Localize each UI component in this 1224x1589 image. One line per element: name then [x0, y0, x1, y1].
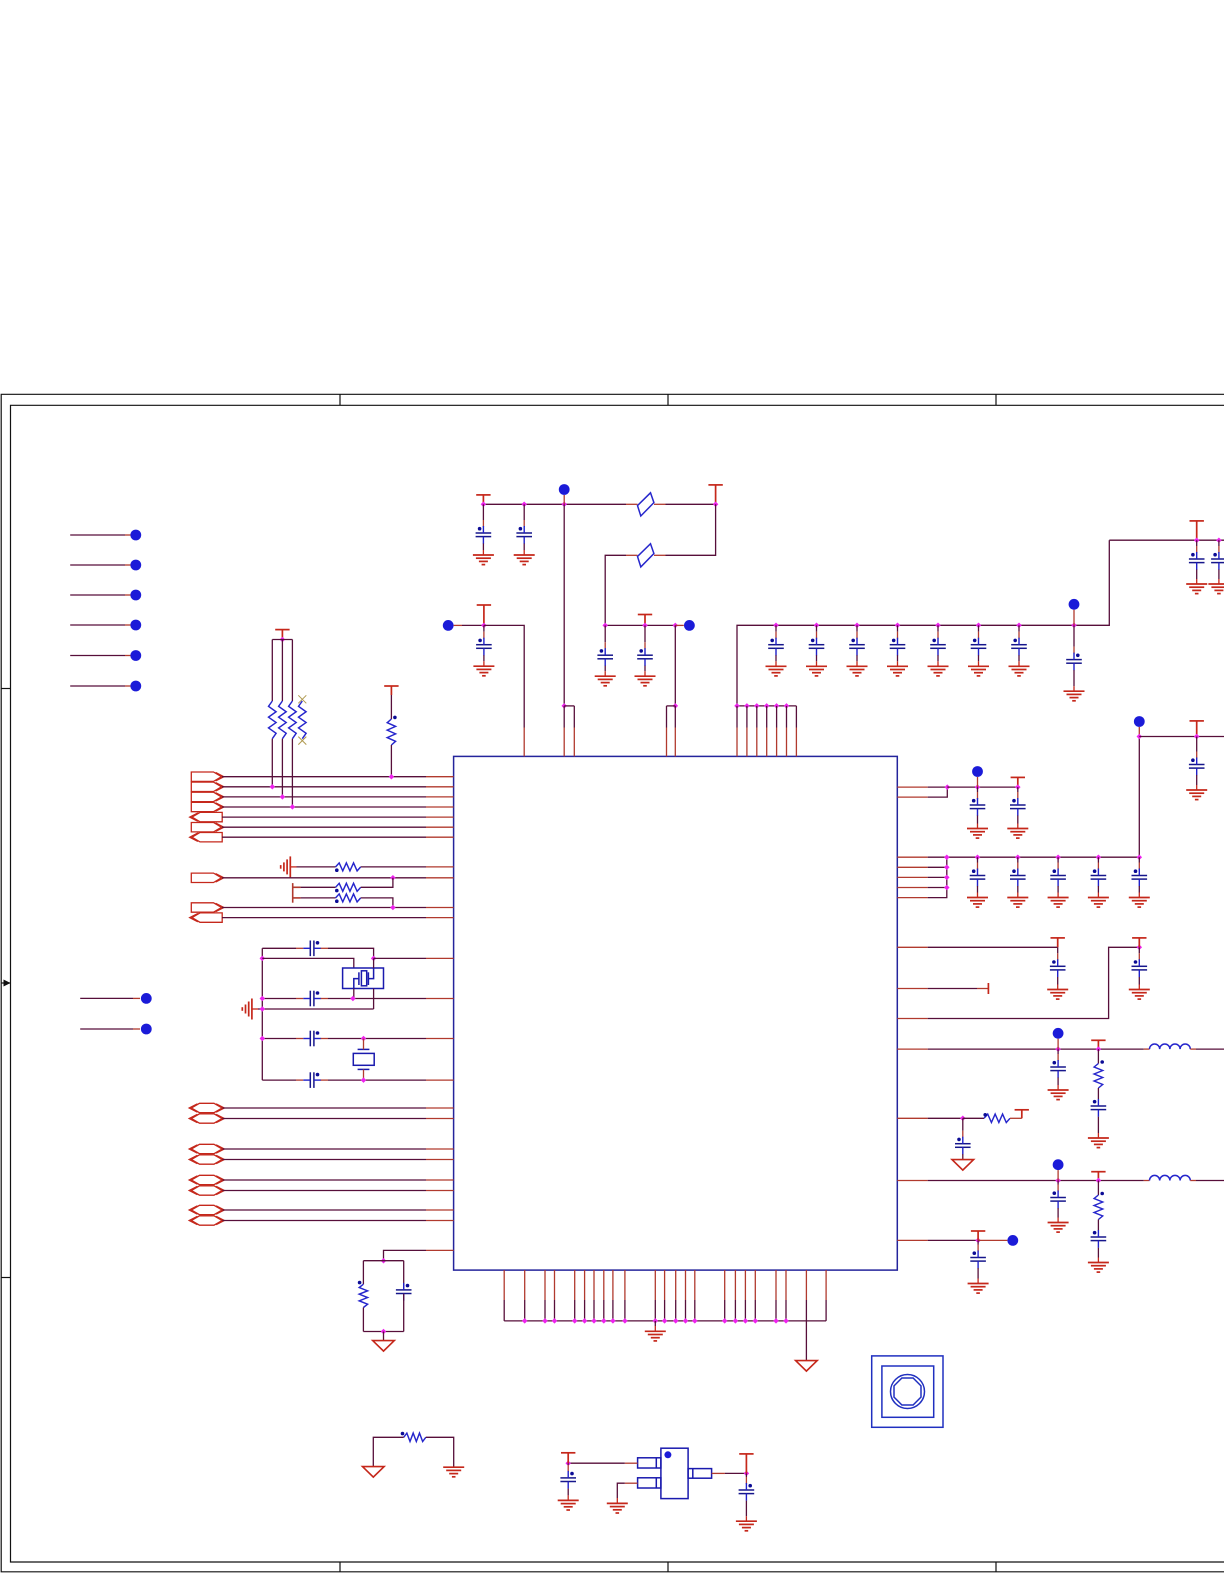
wire: [222, 786, 426, 788]
resistor R3: [289, 701, 297, 739]
wire: [574, 1270, 576, 1300]
wire: [947, 856, 1140, 858]
port PB6: [192, 1186, 223, 1195]
wire: [1010, 1117, 1022, 1119]
ground: [1047, 990, 1068, 1000]
node NC4: [130, 620, 141, 631]
wire: [484, 625, 524, 727]
junction: [1096, 854, 1102, 860]
wire: [776, 706, 778, 728]
wire: [1138, 737, 1140, 858]
wire: [222, 1159, 426, 1161]
wire: [426, 1437, 454, 1467]
junction: [722, 1318, 728, 1324]
wire: [1139, 736, 1224, 738]
capacitor C4: [303, 1072, 321, 1088]
capacitor C14: [890, 638, 906, 656]
port P5: [192, 812, 222, 821]
wire: [362, 1261, 364, 1285]
junction: [713, 502, 719, 508]
junction: [944, 865, 950, 871]
node VDD: [559, 484, 570, 495]
ground: [1129, 898, 1150, 908]
wire: [271, 739, 273, 787]
power VOUT: [739, 1454, 753, 1474]
capacitor C6: [476, 526, 492, 544]
junction: [260, 956, 266, 962]
wire: [1057, 1039, 1059, 1049]
junction: [290, 804, 296, 810]
resistor R12: [1094, 1195, 1103, 1220]
wire: [262, 958, 354, 968]
wire: [664, 1270, 666, 1300]
inductor L1: [1150, 1044, 1191, 1049]
capacitor C38: [739, 1483, 755, 1501]
wire: [373, 958, 375, 968]
resistor R5: [387, 719, 395, 745]
ferrite bead FB1: [638, 493, 654, 516]
junction: [784, 703, 790, 709]
wire: [963, 1117, 984, 1119]
wire: [897, 897, 927, 899]
junction: [280, 637, 286, 643]
capacitor C30: [1132, 959, 1148, 977]
node NC5: [130, 650, 141, 661]
wire: [897, 1048, 927, 1050]
ground: [558, 1500, 579, 1510]
junction: [774, 703, 780, 709]
wire: [654, 554, 666, 556]
resistor R9: [359, 1284, 367, 1307]
node NC1: [130, 530, 141, 541]
wire: [373, 989, 375, 1010]
junction: [280, 794, 286, 800]
capacitor C37: [560, 1471, 576, 1489]
capacitor C2: [303, 991, 321, 1007]
ground: [968, 666, 989, 676]
wire: [666, 503, 716, 505]
junction: [361, 1077, 367, 1083]
capacitor C12: [809, 638, 825, 656]
wire: [897, 1018, 927, 1020]
junction: [521, 502, 527, 508]
wire: [1097, 1049, 1099, 1063]
junction: [522, 1318, 528, 1324]
wire: [361, 898, 393, 908]
junction: [1071, 623, 1077, 629]
wire: [262, 1079, 296, 1081]
ground: [595, 676, 616, 686]
wire: [563, 495, 565, 504]
ground: [1208, 584, 1224, 594]
power AVDD33: [1091, 1040, 1105, 1049]
mounting hole M1: [872, 1356, 943, 1427]
wire: [222, 877, 426, 879]
capacitor C22: [1010, 798, 1026, 816]
connector J1: [293, 883, 301, 903]
ground: [1129, 990, 1150, 1000]
node VDD18: [1134, 716, 1145, 727]
ground: [1048, 1223, 1069, 1233]
wire: [737, 540, 1109, 706]
wire: [252, 1008, 258, 1010]
junction: [390, 875, 396, 881]
junction: [854, 623, 860, 629]
junction: [1055, 854, 1061, 860]
ferrite bead FB2: [638, 544, 654, 567]
wire: [786, 706, 788, 728]
junction: [754, 703, 760, 709]
capacitor C16: [971, 638, 987, 656]
power VBAT: [971, 1231, 985, 1240]
wire: [674, 706, 676, 728]
node VDD: [972, 766, 983, 777]
port P7: [192, 833, 222, 842]
wire: [328, 998, 426, 1000]
wire: [503, 1270, 505, 1300]
junction: [744, 703, 750, 709]
capacitor C8: [476, 638, 492, 656]
wire: [222, 1179, 426, 1181]
wire: [272, 639, 292, 641]
resistor R7: [336, 883, 361, 891]
junction: [389, 774, 395, 780]
junction: [260, 1006, 266, 1012]
capacitor C36: [970, 1251, 986, 1269]
wire: [363, 1331, 403, 1333]
wire: [1190, 1048, 1196, 1050]
junction: [773, 1318, 779, 1324]
wire: [504, 1320, 826, 1322]
junction: [744, 1471, 750, 1477]
ground: [1088, 1138, 1109, 1148]
wire: [694, 1270, 696, 1300]
ground: [443, 1467, 464, 1477]
ground (triangle): [373, 1341, 395, 1352]
wire: [281, 640, 283, 702]
node NC2: [130, 560, 141, 571]
junction: [622, 1318, 628, 1324]
port PB7: [192, 1205, 223, 1214]
ground: [1048, 898, 1069, 908]
junction: [944, 875, 950, 881]
junction: [591, 1318, 597, 1324]
wire: [897, 786, 927, 788]
ground: [928, 666, 949, 676]
junction: [1096, 1178, 1102, 1184]
ground (rotated): [242, 999, 252, 1020]
ground (triangle): [796, 1361, 818, 1372]
wire: [222, 806, 426, 808]
wire: [222, 776, 426, 778]
power AVDD: [477, 605, 491, 625]
capacitor C34: [1050, 1191, 1066, 1209]
crystal Y2: [353, 1049, 374, 1069]
port P8: [191, 873, 221, 882]
junction: [1015, 854, 1021, 860]
wire: [1097, 1181, 1099, 1196]
wire: [70, 594, 125, 596]
wire: [523, 728, 525, 757]
power VCC: [1011, 777, 1025, 787]
wire: [426, 1249, 454, 1251]
ground: [1064, 691, 1085, 701]
node NCM2: [141, 1024, 152, 1035]
no-connect X: [298, 737, 306, 745]
ground: [887, 666, 908, 676]
capacitor C21: [970, 798, 986, 816]
no-connect X: [298, 695, 306, 703]
wire: [612, 1270, 614, 1300]
node AVDD33: [1053, 1028, 1064, 1039]
node DVDD: [1069, 599, 1080, 610]
junction: [1137, 734, 1143, 740]
node PLLVDD: [684, 620, 695, 631]
junction: [572, 1318, 578, 1324]
wire: [222, 1190, 426, 1192]
junction: [1055, 1178, 1061, 1184]
junction: [673, 703, 679, 709]
inductor L2: [1150, 1175, 1191, 1180]
junction: [381, 1329, 387, 1335]
junction: [561, 502, 567, 508]
port PB1: [192, 1103, 223, 1112]
wire: [675, 624, 684, 626]
wire: [222, 1209, 426, 1211]
port P10: [192, 913, 222, 922]
wire: [321, 998, 328, 1000]
wire: [373, 1437, 403, 1466]
ground: [635, 676, 656, 686]
junction: [542, 1318, 548, 1324]
wire: [654, 1321, 656, 1326]
capacitor C10: [637, 648, 653, 666]
wire: [675, 1270, 677, 1300]
ground: [847, 666, 868, 676]
junction: [976, 623, 982, 629]
junction: [1015, 784, 1021, 790]
ground: [1048, 1090, 1069, 1100]
junction: [610, 1318, 616, 1324]
ground (rotated): [281, 856, 291, 877]
wire: [80, 1028, 133, 1030]
wire: [897, 887, 927, 889]
node AVDD: [443, 620, 454, 631]
capacitor C25: [1050, 869, 1066, 887]
power VDDA: [1051, 938, 1065, 947]
junction: [662, 1318, 668, 1324]
wire: [734, 1270, 736, 1300]
wire: [321, 1079, 328, 1081]
wire: [353, 989, 355, 999]
capacitor C26: [1091, 869, 1107, 887]
wire: [1144, 1180, 1150, 1182]
wire: [361, 878, 393, 888]
ground (triangle): [952, 1160, 974, 1171]
wire: [626, 503, 638, 505]
junction: [1137, 854, 1143, 860]
ground: [967, 829, 988, 839]
capacitor C31: [1050, 1060, 1066, 1078]
wire: [262, 1008, 373, 1010]
wire: [897, 1180, 927, 1182]
wire: [584, 1270, 586, 1300]
wire: [795, 706, 797, 728]
wire: [947, 786, 1018, 788]
wire: [363, 1069, 365, 1080]
wire: [977, 777, 979, 787]
wire: [222, 907, 426, 909]
junction: [642, 623, 648, 629]
wire: [978, 1239, 1007, 1241]
wire: [897, 876, 927, 878]
node NC3: [130, 590, 141, 601]
ground: [514, 555, 535, 565]
wire: [281, 739, 283, 797]
wire: [785, 1270, 787, 1300]
wire: [666, 706, 668, 728]
power VDD18: [1190, 721, 1204, 737]
wire: [70, 655, 125, 657]
wire: [1097, 1220, 1099, 1231]
capacitor C19: [1189, 552, 1205, 570]
capacitor C5: [396, 1283, 412, 1301]
junction: [260, 1036, 266, 1042]
wire: [624, 1270, 626, 1300]
wire: [756, 706, 758, 728]
wire: [222, 1107, 426, 1109]
wire: [605, 555, 626, 625]
wire: [564, 705, 574, 707]
port P1: [191, 772, 221, 781]
node NC6: [130, 681, 141, 692]
junction: [734, 703, 740, 709]
junction: [814, 623, 820, 629]
wire: [328, 1079, 426, 1081]
capacitor C1: [303, 941, 321, 957]
port P6: [191, 823, 221, 832]
wire: [222, 1220, 426, 1222]
node AVDD18: [1053, 1159, 1064, 1170]
junction: [381, 1258, 387, 1264]
capacitor C3: [303, 1031, 321, 1047]
wire: [712, 1472, 725, 1474]
wire: [897, 796, 927, 798]
wire: [271, 640, 273, 702]
capacitor C13: [849, 638, 865, 656]
wire: [605, 624, 675, 626]
ground: [806, 666, 827, 676]
ground: [1007, 898, 1028, 908]
wire: [805, 1270, 807, 1300]
wire: [70, 534, 125, 536]
junction: [1016, 623, 1022, 629]
wire: [563, 504, 565, 706]
junction: [260, 996, 266, 1002]
wire: [328, 948, 374, 958]
wire: [667, 705, 676, 707]
wire: [70, 564, 125, 566]
wire: [616, 1498, 618, 1503]
junction: [944, 854, 950, 860]
ground (triangle): [363, 1467, 385, 1478]
resistor R11: [984, 1114, 1010, 1122]
ground: [645, 1331, 666, 1341]
wire: [825, 1270, 827, 1300]
junction: [960, 1116, 966, 1122]
capacitor C18: [1066, 653, 1082, 671]
wire: [80, 997, 133, 999]
wire: [390, 695, 392, 719]
junction: [692, 1318, 698, 1324]
wire: [290, 866, 296, 868]
resistor R2: [279, 701, 287, 739]
wire: [524, 1270, 526, 1300]
junction: [270, 784, 276, 790]
wire: [1190, 1180, 1196, 1182]
crystal Y1: [343, 968, 384, 989]
power pullup terminator: [1015, 1110, 1029, 1119]
capacitor C15: [930, 638, 946, 656]
junction: [1096, 1046, 1102, 1052]
wire: [403, 1294, 405, 1332]
wire: [554, 1270, 556, 1300]
regulator U2: [638, 1448, 712, 1498]
port PB4: [192, 1155, 223, 1164]
capacitor C35: [1091, 1230, 1107, 1248]
wire: [403, 1261, 405, 1290]
wire: [261, 948, 263, 1080]
wire: [222, 836, 426, 838]
capacitor C23: [970, 869, 986, 887]
ground: [967, 898, 988, 908]
wire: [593, 1270, 595, 1300]
wire: [625, 1462, 638, 1464]
junction: [1194, 537, 1200, 543]
wire: [544, 1270, 546, 1300]
ground: [1088, 898, 1109, 908]
junction: [1137, 945, 1143, 951]
resistor R6: [336, 863, 361, 871]
ground: [968, 1284, 989, 1294]
junction: [673, 623, 679, 629]
power AVDD18: [1091, 1172, 1105, 1181]
wire: [363, 1260, 403, 1262]
wire: [1097, 1088, 1099, 1099]
wire: [754, 1270, 756, 1300]
junction: [673, 1318, 679, 1324]
port P3: [191, 792, 221, 801]
junction: [565, 1460, 571, 1466]
ground: [473, 555, 494, 565]
capacitor C28: [1189, 758, 1205, 776]
capacitor C29: [1050, 959, 1066, 977]
junction: [371, 956, 377, 962]
port PB5: [192, 1175, 223, 1184]
junction: [582, 1318, 588, 1324]
wire: [301, 886, 336, 888]
capacitor C32: [1091, 1099, 1107, 1117]
power PLLVDD: [638, 615, 652, 626]
wire: [362, 1308, 364, 1332]
junction: [975, 784, 981, 790]
ground: [607, 1503, 628, 1513]
port P4: [191, 802, 221, 811]
wire: [483, 503, 626, 505]
wire: [222, 1118, 426, 1120]
junction: [390, 905, 396, 911]
wire: [1073, 610, 1075, 626]
